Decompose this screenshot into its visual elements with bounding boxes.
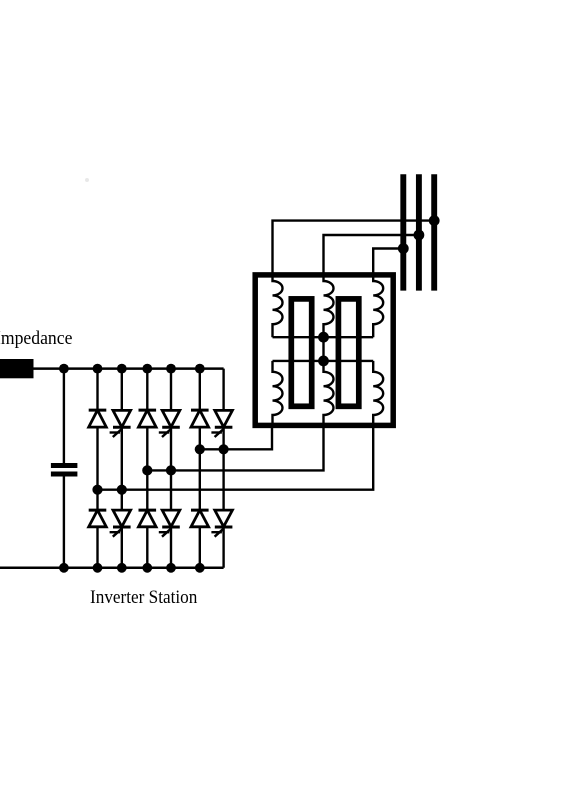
wire: primary phase c riser to AC bus: [373, 249, 403, 278]
junction dot: top rail / column 3: [142, 364, 152, 374]
junction dot: secondary star point: [318, 356, 329, 367]
wire: AC phase b from bridge columns 3,4 to transformer: [147, 423, 323, 470]
junction dot: AC bus bar 1 / phase c: [398, 243, 409, 254]
diode D3 (row1 col5): [191, 410, 209, 427]
junction dot: top rail / column 5: [195, 364, 205, 374]
junction dot: bottom rail / column 2: [117, 563, 127, 573]
wire: AC phase a from bridge columns 5,6 to transformer: [200, 423, 272, 449]
wire: primary phase a riser to AC bus: [273, 221, 435, 277]
primary winding coil La: [273, 277, 283, 337]
diode D2 (row1 col3): [139, 410, 157, 427]
wire: valve column 3: [146, 369, 148, 568]
scan speck: [85, 178, 89, 182]
transformer T: tank box: [255, 275, 393, 426]
junction dot: AC bus bar 3 / phase a: [429, 215, 440, 226]
transformer core limb 2: [338, 299, 358, 406]
AC bus bar 1: [400, 174, 406, 290]
label: Impedance: [0, 328, 72, 350]
wire: valve column 6: [222, 369, 224, 568]
junction dot: primary star point: [318, 332, 329, 343]
secondary winding coil lc: [373, 361, 383, 423]
junction dot: top rail / column 4: [166, 364, 176, 374]
thyristor T3 (row1 col6): [211, 410, 232, 437]
wire: DC top rail: [34, 367, 224, 370]
wire: valve column 4: [170, 369, 172, 568]
diode D5 (row2 col3): [139, 510, 157, 527]
junction dot: top rail / column 1: [93, 364, 103, 374]
wire: valve column 2: [121, 369, 123, 568]
capacitor C1: [51, 466, 78, 475]
junction dot: bottom rail / column 1: [93, 563, 103, 573]
wire: valve column 1: [96, 369, 98, 568]
junction dot: phase c / column 2: [117, 485, 127, 495]
smoothing impedance block (DC reactor): [0, 359, 34, 378]
diode D6 (row2 col5): [191, 510, 209, 527]
wire: capacitor branch upper: [63, 369, 65, 464]
wire: primary star bus: [273, 336, 374, 338]
junction dot: bottom rail / capacitor: [59, 563, 69, 573]
AC bus bar 2: [416, 174, 422, 290]
AC bus bar 3: [431, 174, 437, 290]
wire: capacitor branch lower: [63, 476, 65, 568]
primary winding coil Lc: [373, 277, 383, 337]
junction dot: phase c / column 1: [92, 485, 102, 495]
wire: star point link: [322, 337, 324, 361]
wire: primary phase b riser to AC bus: [324, 235, 419, 277]
secondary winding coil lb: [324, 361, 334, 423]
thyristor T5 (row2 col4): [159, 510, 180, 537]
secondary winding coil la: [273, 361, 283, 423]
junction dot: phase b / column 3: [142, 465, 152, 475]
wire: DC bottom rail: [0, 567, 224, 570]
junction dot: bottom rail / column 4: [166, 563, 176, 573]
junction dot: top rail / column 2: [117, 364, 127, 374]
thyristor T6 (row2 col6): [211, 510, 232, 537]
junction dot: phase a / column 6: [219, 444, 229, 454]
thyristor T4 (row2 col2): [110, 510, 131, 537]
junction dot: bottom rail / column 5: [195, 563, 205, 573]
thyristor T2 (row1 col4): [159, 410, 180, 437]
primary winding coil Lb: [324, 277, 334, 337]
junction dot: phase a / column 5: [195, 444, 205, 454]
junction dot: bottom rail / column 3: [142, 563, 152, 573]
thyristor T1 (row1 col2): [110, 410, 131, 437]
wire: valve column 5: [199, 369, 201, 568]
wire: AC phase c from bridge columns 1,2 to transformer: [98, 423, 374, 490]
diode D4 (row2 col1): [89, 510, 107, 527]
label: Inverter Station: [90, 587, 197, 609]
junction dot: top rail / capacitor: [59, 364, 69, 374]
diode D1 (row1 col1): [89, 410, 107, 427]
wire: secondary star bus: [273, 360, 374, 362]
junction dot: phase b / column 4: [166, 465, 176, 475]
junction dot: AC bus bar 2 / phase b: [414, 230, 425, 241]
transformer core limb 1: [291, 299, 311, 406]
